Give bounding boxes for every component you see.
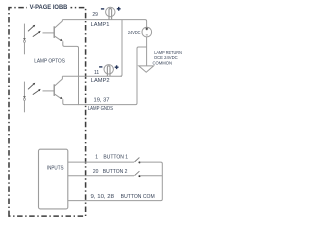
wire button1 (pin 1)	[68, 161, 134, 163]
opto U2 light arrow 2	[33, 90, 39, 94]
phototransistor Q1 collector	[54, 20, 62, 29]
wire 24VDC to common triangle	[146, 37, 148, 66]
opto U1 LED cathode wire	[23, 42, 25, 54]
svg-text:20: 20	[93, 169, 99, 175]
lamp1 minus polarity	[101, 8, 104, 10]
lamp1 plus polarity	[117, 8, 121, 10]
svg-text:LAMP GNDS: LAMP GNDS	[88, 106, 114, 112]
svg-text:LAMP1: LAMP1	[91, 22, 110, 28]
wire lamp2 net (pin 11)	[62, 75, 122, 77]
svg-text:BUTTON COM: BUTTON COM	[121, 194, 155, 200]
svg-text:19, 37: 19, 37	[94, 97, 110, 103]
phototransistor Q2 base lead	[43, 90, 55, 92]
wire lamp gnds rail (pins 19,37)	[79, 47, 147, 105]
wire button2 (pin 20)	[68, 175, 134, 177]
ground triangle lamp return	[139, 66, 154, 72]
opto U2 light arrow 1	[28, 85, 33, 90]
wire lamp2 plus to 24VDC rail	[121, 20, 123, 77]
wire lamp1 net (pin 29)	[62, 20, 146, 28]
svg-text:LAMP RETURN: LAMP RETURN	[154, 50, 182, 55]
svg-text:LAMP OPTOS: LAMP OPTOS	[34, 59, 65, 65]
svg-text:9, 10, 28: 9, 10, 28	[91, 194, 115, 200]
opto U1 LED anode wire	[23, 24, 25, 39]
svg-text:OCE 24VDC: OCE 24VDC	[154, 55, 178, 60]
svg-text:BUTTON 2: BUTTON 2	[103, 169, 128, 175]
switch S2 blade	[135, 171, 140, 176]
wire Q1 emitter to gnd rail	[63, 41, 79, 104]
svg-text:INPUTS: INPUTS	[47, 165, 64, 171]
title mask	[27, 3, 71, 11]
svg-text:24VDC: 24VDC	[128, 30, 141, 35]
svg-text:COMMON: COMMON	[153, 61, 173, 66]
lamp2 plus polarity	[115, 66, 119, 68]
svg-text:BUTTON 1: BUTTON 1	[103, 155, 128, 161]
svg-text:29: 29	[92, 12, 98, 18]
lamp LAMP1	[106, 7, 115, 16]
svg-text:11: 11	[94, 70, 99, 76]
opto U2 LED anode wire	[23, 82, 25, 97]
phototransistor Q1 base lead	[43, 32, 55, 34]
wire button common (pins 9,10,28)	[68, 200, 161, 202]
opto U2 LED diode symbol	[23, 96, 26, 98]
phototransistor Q1 base bar	[53, 26, 55, 38]
wire Q2 emitter to gnd rail	[63, 99, 79, 104]
opto U1 LED diode symbol	[23, 38, 26, 40]
wire switch S2 to bus	[140, 175, 163, 177]
switch S1 contact dot	[139, 161, 141, 163]
24VDC source B1	[142, 27, 152, 37]
svg-text:V-PAGE IOBB: V-PAGE IOBB	[30, 4, 68, 11]
lamp2 minus polarity	[99, 66, 102, 68]
opto U1 light arrow 2	[33, 32, 39, 36]
opto U2 LED cathode wire	[23, 100, 25, 112]
switch S1 blade	[135, 158, 140, 163]
lamp LAMP2	[104, 65, 113, 74]
opto U1 light arrow 1	[28, 27, 33, 32]
wire switch S1 to bus	[140, 162, 163, 201]
INPUTS box	[39, 149, 68, 209]
svg-text:LAMP2: LAMP2	[91, 78, 110, 84]
switch S2 contact dot	[139, 175, 141, 177]
phototransistor Q2 emitter	[54, 94, 61, 98]
phototransistor Q2 base bar	[53, 84, 55, 96]
phototransistor Q1 emitter	[54, 36, 61, 40]
page boundary dash-dot border	[9, 8, 86, 217]
phototransistor Q2 collector	[54, 76, 62, 86]
svg-text:1: 1	[95, 155, 98, 161]
